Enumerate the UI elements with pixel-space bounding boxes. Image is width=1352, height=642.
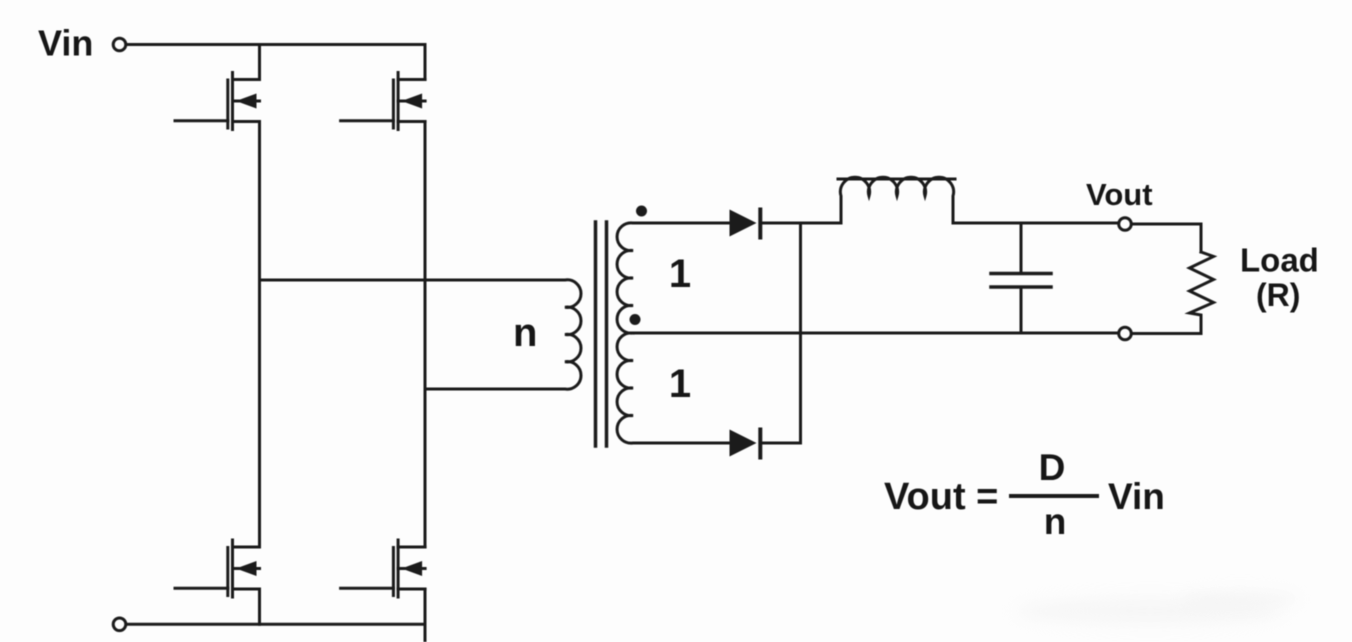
wire load bottom	[1132, 332, 1202, 335]
svg-text:1: 1	[669, 252, 691, 296]
svg-text:Vin: Vin	[1108, 476, 1165, 517]
phasing dot top	[636, 206, 647, 217]
svg-text:D: D	[1039, 447, 1066, 488]
wire center tap rail	[648, 332, 1119, 335]
wire primary bottom lead	[425, 388, 551, 391]
label 1 top secondary	[669, 252, 691, 296]
label Vin	[38, 23, 93, 64]
terminal Vin	[113, 38, 126, 51]
wire inductor to Vout	[953, 222, 1119, 225]
wire Vin top rail	[126, 43, 425, 46]
svg-text:n: n	[1044, 501, 1067, 542]
formula Vout = D/n Vin	[884, 447, 1165, 542]
inductor L1	[838, 177, 955, 223]
wire secondary top to diode	[648, 222, 730, 225]
faint smudge artifact bottom right	[1015, 598, 1285, 624]
label n primary turns	[513, 311, 537, 355]
wire Vout to load	[1132, 224, 1202, 252]
transistor Q1	[175, 73, 260, 130]
wire D1 cathode to inductor	[762, 222, 841, 225]
transistor Q4	[341, 540, 426, 597]
wire right bridge leg	[424, 122, 427, 548]
wire primary top lead	[260, 279, 552, 282]
resistor load R	[1190, 252, 1214, 334]
wire Q3 source	[258, 589, 261, 624]
transformer secondary winding bottom	[617, 333, 648, 443]
wire Q2 drain	[424, 45, 427, 80]
wire Q4 source	[424, 589, 427, 642]
svg-text:Vout: Vout	[1086, 177, 1153, 212]
wire bottom rail	[126, 623, 425, 626]
svg-text:Vin: Vin	[38, 23, 93, 64]
svg-text:1: 1	[669, 362, 691, 406]
svg-text:Vout =: Vout =	[884, 476, 998, 518]
label 1 bottom secondary	[669, 362, 691, 406]
wire D2 cathode riser	[762, 223, 801, 443]
diode D1	[730, 210, 761, 238]
terminal bottom left	[113, 618, 126, 631]
transformer core	[596, 222, 607, 446]
label Vout	[1086, 177, 1153, 212]
diode D2	[730, 430, 761, 458]
terminal Vout bottom	[1119, 327, 1132, 340]
wire Q1 drain	[258, 45, 261, 80]
capacitor C1	[991, 223, 1051, 333]
label Load (R)	[1240, 242, 1319, 314]
transformer primary winding n	[551, 280, 581, 389]
phasing dot middle	[630, 314, 641, 325]
transistor Q3	[175, 540, 260, 597]
svg-text:(R): (R)	[1256, 277, 1300, 313]
svg-text:n: n	[513, 311, 537, 355]
svg-text:Load: Load	[1240, 242, 1319, 279]
wire secondary bottom to diode	[648, 442, 730, 445]
transformer secondary winding top	[617, 223, 648, 333]
transistor Q2	[341, 73, 426, 130]
terminal Vout top	[1119, 218, 1132, 231]
wire left bridge leg	[258, 122, 261, 548]
